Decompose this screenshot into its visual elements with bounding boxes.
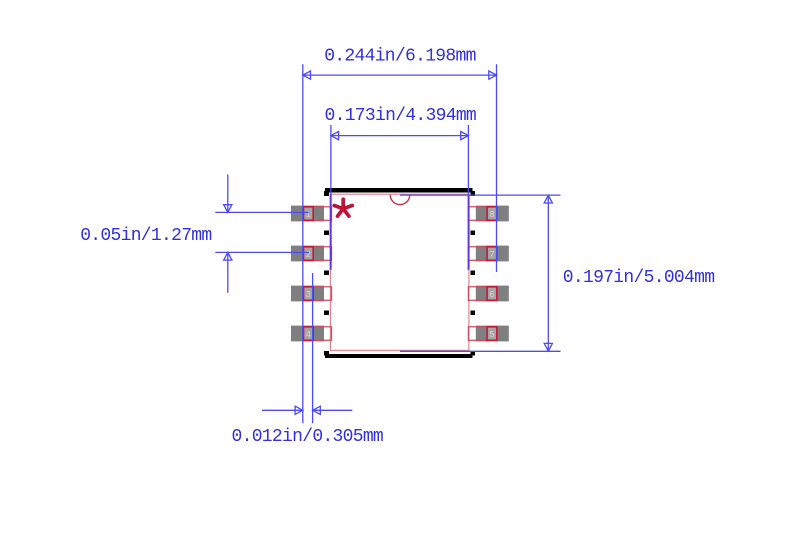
bottom package bar — [324, 351, 475, 358]
pin 5 — [468, 326, 508, 342]
pin 1 index notch — [390, 195, 410, 205]
svg-text:2: 2 — [306, 250, 311, 260]
svg-text:3: 3 — [306, 290, 311, 300]
dimension 0.197in/5.004mm — [400, 195, 561, 351]
svg-text:6: 6 — [489, 290, 494, 300]
pin 7 — [468, 246, 508, 262]
top package bar — [324, 188, 475, 196]
pin 2 — [291, 246, 332, 262]
svg-text:1: 1 — [306, 210, 311, 220]
left lead-gap markers — [324, 230, 329, 315]
svg-text:7: 7 — [489, 250, 494, 260]
svg-text:8: 8 — [489, 210, 494, 220]
dimension 0.012in/0.305mm — [262, 273, 352, 423]
pin 8 — [468, 206, 508, 222]
svg-text:4: 4 — [306, 330, 311, 340]
pin 1 marker asterisk — [334, 199, 352, 216]
pin 3 — [291, 286, 332, 302]
pin 6 — [468, 286, 508, 302]
svg-text:5: 5 — [489, 330, 494, 340]
svg-text:0.244in/6.198mm: 0.244in/6.198mm — [324, 47, 476, 67]
svg-text:0.05in/1.27mm: 0.05in/1.27mm — [80, 226, 211, 246]
dimension 0.05in/1.27mm — [215, 175, 308, 293]
svg-text:0.173in/4.394mm: 0.173in/4.394mm — [325, 106, 477, 126]
svg-text:0.012in/0.305mm: 0.012in/0.305mm — [232, 427, 384, 447]
dimension 0.244in/6.198mm — [303, 64, 497, 423]
dimension 0.173in/4.394mm — [331, 125, 469, 270]
svg-text:0.197in/5.004mm: 0.197in/5.004mm — [563, 268, 715, 288]
pin 4 — [291, 326, 332, 342]
pin 1 — [291, 206, 332, 222]
IC body outline — [330, 194, 469, 350]
right lead-gap markers — [470, 230, 475, 315]
